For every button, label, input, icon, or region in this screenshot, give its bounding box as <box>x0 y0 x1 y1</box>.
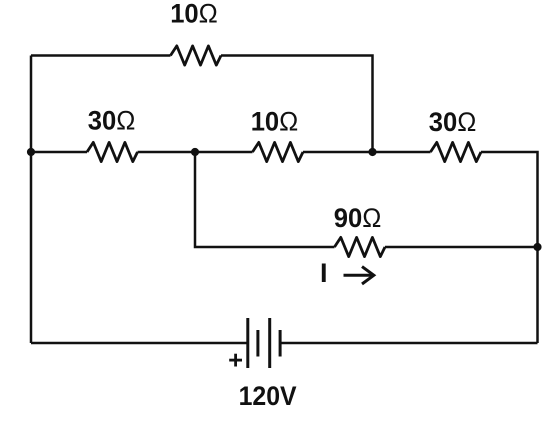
wire: bottom branch left of battery <box>31 342 247 345</box>
svg-text:90Ω: 90Ω <box>334 203 382 233</box>
resistor R1 10ohm (top) <box>171 46 222 65</box>
node D (right 90ohm junction) <box>533 243 541 251</box>
svg-text:30Ω: 30Ω <box>88 106 136 136</box>
battery V1 120V <box>248 318 280 368</box>
wire: middle branch, R2 to R3 <box>138 151 253 154</box>
svg-text:120V: 120V <box>239 381 297 411</box>
node C (top branch junction) <box>368 148 376 156</box>
svg-text:10Ω: 10Ω <box>170 0 218 28</box>
svg-text:I: I <box>320 258 328 288</box>
wire: middle branch to right vertical <box>481 152 538 343</box>
resistor R5 90ohm <box>335 237 386 256</box>
wire: top branch right of R1 down to middle node <box>221 56 373 153</box>
resistor R4 30ohm (middle-right) <box>431 142 482 161</box>
wire: branch from node B down and right to R5 <box>195 152 335 247</box>
wire: middle branch, node A to R2 <box>31 151 87 154</box>
wire: middle branch, R3 to R4 <box>303 151 431 154</box>
resistor R3 10ohm (middle-center) <box>253 142 304 161</box>
wire: bottom branch right of battery <box>282 342 538 345</box>
wire: left vertical branch <box>30 56 33 344</box>
node A (left middle junction) <box>27 148 35 156</box>
node B (90ohm branch junction) <box>191 148 199 156</box>
battery plus sign <box>229 354 242 367</box>
resistor R2 30ohm (middle-left) <box>87 142 138 161</box>
wire: R5 to right vertical node <box>385 246 538 249</box>
svg-text:30Ω: 30Ω <box>429 107 477 137</box>
svg-text:10Ω: 10Ω <box>251 106 299 136</box>
wire: top branch left of R1 <box>31 54 171 57</box>
current arrow <box>344 267 374 284</box>
